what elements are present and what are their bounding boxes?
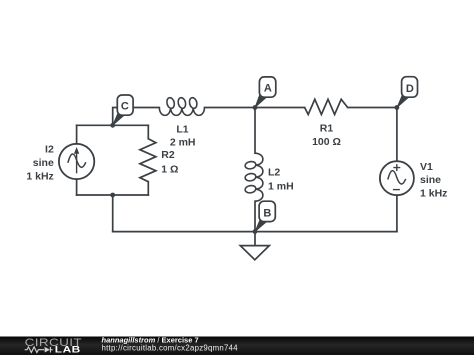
svg-text:I2: I2 <box>45 143 54 155</box>
svg-text:1 mH: 1 mH <box>268 181 294 193</box>
svg-text:sine: sine <box>420 174 441 186</box>
svg-text:2 mH: 2 mH <box>170 136 196 148</box>
svg-text:1 Ω: 1 Ω <box>161 164 178 176</box>
svg-text:C: C <box>121 100 129 112</box>
svg-text:1 kHz: 1 kHz <box>420 188 447 200</box>
svg-text:D: D <box>406 83 414 95</box>
svg-text:R2: R2 <box>161 149 175 161</box>
svg-text:1 kHz: 1 kHz <box>26 170 53 182</box>
svg-text:B: B <box>263 207 271 219</box>
svg-text:sine: sine <box>33 157 54 169</box>
svg-text:R1: R1 <box>320 123 334 135</box>
svg-text:http://circuitlab.com/cx2apz9q: http://circuitlab.com/cx2apz9qmn744 <box>102 344 239 353</box>
svg-text:V1: V1 <box>420 161 433 173</box>
svg-text:L2: L2 <box>268 167 280 179</box>
svg-text:LAB: LAB <box>55 345 81 355</box>
svg-text:L1: L1 <box>176 123 188 135</box>
svg-text:100 Ω: 100 Ω <box>312 136 341 148</box>
svg-text:A: A <box>264 83 272 95</box>
